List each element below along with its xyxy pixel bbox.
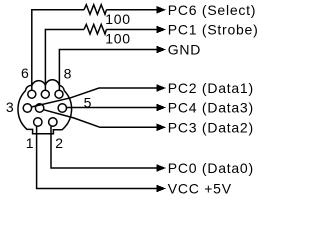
wire R2 to PC1 arrow <box>106 29 157 31</box>
svg-text:PC2 (Data1): PC2 (Data1) <box>168 80 254 96</box>
arrowhead PC2 <box>157 84 166 92</box>
pin 1 <box>34 118 42 126</box>
svg-text:3: 3 <box>6 99 15 115</box>
wire R1 to PC6 arrow <box>106 9 157 11</box>
wire pin2 to PC0 arrow <box>51 126 158 168</box>
arrowhead PC6 <box>157 6 166 14</box>
svg-text:PC1 (Strobe): PC1 (Strobe) <box>168 22 259 38</box>
svg-text:100: 100 <box>105 31 131 47</box>
svg-text:GND: GND <box>168 42 201 58</box>
wire pin1 to VCC arrow <box>37 126 158 188</box>
pin 2 <box>49 118 57 126</box>
svg-text:1: 1 <box>26 135 35 151</box>
pin 6 <box>28 90 36 98</box>
resistor R1 <box>84 5 106 15</box>
arrowhead PC3 <box>157 124 166 132</box>
arrowhead PC1 <box>157 26 166 34</box>
wire pin6 to R1 (PC6 net) <box>32 10 84 91</box>
pin 7 <box>41 90 49 98</box>
svg-text:PC3 (Data2): PC3 (Data2) <box>168 119 254 135</box>
wire pin5 to PC4 arrow <box>66 107 157 109</box>
wire pin8 to GND <box>59 50 157 91</box>
arrowhead VCC <box>157 185 166 193</box>
wire pin7 to R2 (PC1 net) <box>45 30 84 91</box>
pin 8 <box>55 90 63 98</box>
svg-text:VCC +5V: VCC +5V <box>168 181 232 197</box>
pin 4 <box>35 104 43 112</box>
pin 5 <box>58 104 66 112</box>
arrowhead GND <box>157 46 166 54</box>
wire pin4 to PC3 arrow <box>43 110 157 128</box>
svg-text:PC0 (Data0): PC0 (Data0) <box>168 160 254 176</box>
pin 3 <box>23 104 31 112</box>
wire pin3 to PC2 arrow <box>31 88 157 107</box>
arrowhead PC0 <box>157 164 166 172</box>
connector shield outline (mini-DIN 8) <box>18 80 72 134</box>
svg-text:100: 100 <box>105 11 131 27</box>
resistor R2 <box>84 24 106 34</box>
svg-text:2: 2 <box>55 135 64 151</box>
svg-text:5: 5 <box>84 94 93 110</box>
svg-text:8: 8 <box>64 65 73 81</box>
svg-text:PC4 (Data3): PC4 (Data3) <box>168 100 254 116</box>
svg-text:6: 6 <box>21 65 30 81</box>
arrowhead PC4 <box>157 104 166 112</box>
svg-text:PC6 (Select): PC6 (Select) <box>168 2 256 18</box>
